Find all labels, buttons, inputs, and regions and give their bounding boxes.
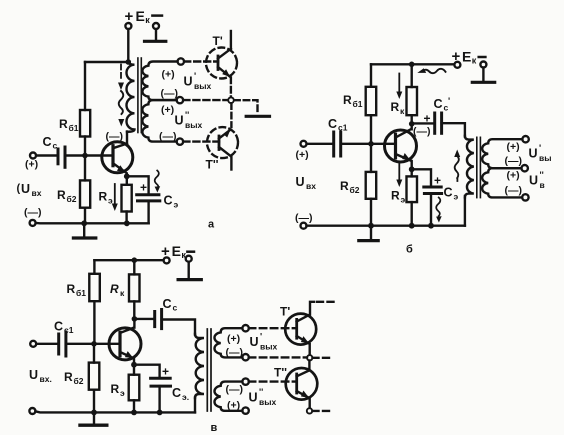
wire emitter to Ce (v) — [134, 365, 160, 379]
svg-text:U: U — [29, 368, 38, 382]
terminal input - (a) — [30, 220, 36, 226]
label (+) sec2 (b) — [507, 170, 520, 182]
wire dashed tap1 to T' (a) — [184, 60, 218, 62]
svg-text:R: R — [111, 382, 120, 396]
svg-text:э: э — [401, 195, 406, 205]
transformer core (b) — [476, 137, 478, 197]
svg-text:(—): (—) — [24, 207, 42, 219]
terminal sec mid (b) — [522, 165, 528, 171]
svg-text:б2: б2 — [350, 185, 360, 195]
transformer core (v) — [206, 329, 208, 411]
terminal input - (b) — [301, 223, 307, 229]
label Uv'' (b) — [529, 170, 545, 190]
wire dashed sec1-bottom to node1 (v) — [249, 356, 307, 358]
wire bottom rail (b) — [307, 224, 465, 226]
ground (a right) — [246, 115, 269, 118]
svg-text:C: C — [328, 117, 337, 131]
svg-text:к: к — [400, 106, 405, 116]
svg-text:R: R — [391, 189, 400, 203]
arrow down beside Re (a) — [114, 184, 116, 205]
svg-text:': ' — [260, 332, 262, 342]
resistor Re (a) — [122, 185, 132, 212]
svg-text:C: C — [43, 135, 52, 149]
svg-text:б1: б1 — [69, 123, 79, 133]
node: output common circle (a) — [228, 97, 234, 103]
terminal sec bottom (a) — [177, 138, 183, 144]
svg-text:б: б — [406, 244, 413, 256]
squiggle arrow at top rail (b) — [423, 69, 446, 73]
wire base node to Rb2 (v) — [93, 344, 95, 363]
node: T'' emitter circle (v) — [307, 408, 312, 413]
wire bottom rail (a) — [36, 222, 149, 225]
svg-text:': ' — [539, 143, 541, 153]
svg-text:R: R — [59, 117, 68, 131]
capacitor Cc1 (v) — [57, 334, 60, 354]
wire emitter to Re (a) — [126, 176, 128, 185]
svg-text:+: + — [424, 112, 431, 126]
svg-text:вых: вых — [259, 397, 276, 407]
svg-text:C: C — [164, 194, 173, 208]
svg-text:с: с — [173, 303, 178, 313]
wire Rb1 top (b) — [370, 64, 372, 87]
svg-text:U: U — [250, 335, 259, 349]
label (-) input (b) — [295, 212, 313, 224]
transistor VT (v) — [109, 328, 141, 360]
label (+) sec1 (a) — [162, 69, 175, 81]
svg-text:T': T' — [280, 305, 290, 319]
node: rail dot 3 (b) — [428, 223, 434, 229]
wire base node to Rb2 (b) — [370, 144, 372, 172]
svg-text:T'': T'' — [274, 366, 287, 380]
label Uv' (b) — [529, 143, 552, 163]
svg-text:U: U — [175, 114, 184, 128]
wire primary bottom to rail (b) — [464, 196, 466, 226]
wire Re bottom (b) — [411, 202, 413, 226]
ground (a bottom) — [83, 223, 85, 236]
svg-text:R: R — [67, 282, 76, 296]
svg-text:C: C — [434, 97, 443, 111]
label b — [406, 244, 413, 256]
svg-text:T': T' — [213, 34, 223, 48]
label Uvx (a) — [17, 182, 42, 198]
label (+) sec2 (a) — [161, 104, 174, 116]
wire Rb1 top (v) — [93, 260, 95, 274]
node: bottom junction 1 (a) — [81, 220, 87, 226]
label (-) sec1 (v) — [226, 347, 244, 359]
svg-text:E: E — [172, 243, 181, 259]
svg-text:вых: вых — [260, 342, 277, 352]
svg-text:вых: вых — [185, 120, 202, 130]
wire T'' collector to node1 (v) — [308, 361, 310, 371]
svg-text:R: R — [343, 93, 352, 107]
squiggle arrow in primary (b) — [454, 150, 460, 158]
wire dashed tap-mid to node (a) — [183, 99, 227, 101]
wire top rail (v) — [94, 259, 163, 261]
capacitor Cc (a) — [57, 149, 60, 164]
wire Rb2 bottom (v) — [93, 390, 95, 413]
svg-text:б2: б2 — [67, 194, 77, 204]
svg-text:с1: с1 — [338, 123, 348, 133]
terminal input + (b) — [301, 141, 307, 147]
node: junction dot top (a) — [126, 59, 132, 65]
svg-text:': ' — [194, 71, 196, 81]
capacitor Cc1 (b) — [332, 132, 335, 156]
resistor Rb2 (v) — [89, 363, 100, 390]
svg-text:C: C — [54, 320, 63, 334]
transistor T' (a) — [206, 48, 237, 79]
wire dashed sec1-top to T' base (v) — [249, 327, 297, 329]
node: rail dot 2 (b) — [409, 223, 415, 229]
wire top rail (b) — [371, 63, 454, 65]
wire Re bottom (v) — [133, 400, 135, 412]
terminal input bottom (v) — [29, 408, 35, 414]
svg-text:(+): (+) — [161, 104, 174, 116]
node: bottom junction 2 (a) — [124, 220, 130, 226]
transistor T'' (v) — [286, 368, 318, 400]
node: rail dot 2 (v) — [131, 410, 137, 416]
svg-text:э: э — [454, 192, 459, 202]
node: rail dot 1 (v) — [91, 410, 97, 416]
wire top horizontal to Rb1 column (a) — [85, 61, 128, 63]
label Uvx (b) — [296, 175, 317, 191]
label (-) sec2 (b) — [505, 185, 523, 197]
secondary lower half winding (a) — [142, 100, 176, 142]
transformer primary winding (v) — [195, 334, 204, 398]
wire input to Cc (a) — [36, 154, 58, 156]
svg-text:+: + — [434, 174, 441, 188]
svg-text:(+): (+) — [25, 159, 38, 171]
svg-text:(—): (—) — [226, 384, 244, 396]
resistor Rk (b) — [407, 87, 418, 115]
svg-text:R: R — [340, 179, 349, 193]
terminal sec bottom (b) — [522, 194, 528, 200]
wire collector node to Cc' (b) — [412, 122, 435, 124]
ground (a top) — [155, 29, 157, 39]
capacitor Ce (v) — [151, 377, 171, 380]
node: emitter dot (v) — [131, 362, 137, 368]
transistor VT (b) — [385, 130, 417, 162]
svg-text:R: R — [64, 370, 73, 384]
label v — [211, 422, 218, 434]
node: base junction dot (a) — [82, 153, 88, 159]
node: base junction dot (b) — [368, 141, 374, 147]
wire Rb1 bottom to base node (a) — [84, 137, 86, 156]
svg-text:C: C — [172, 386, 181, 400]
svg-text:(—): (—) — [106, 131, 124, 143]
svg-text:б1: б1 — [76, 288, 86, 298]
ground (v bottom) — [93, 412, 95, 423]
svg-text:'': '' — [185, 110, 189, 120]
node: emitter dot (b) — [409, 166, 415, 172]
wire Rb1 to base node (b) — [370, 115, 372, 144]
svg-text:вх: вх — [32, 188, 42, 198]
svg-text:(—): (—) — [226, 347, 244, 359]
wire Cc to base (a) — [65, 154, 113, 156]
wire input to Cc1 (b) — [307, 143, 334, 145]
terminal sec1 top (v) — [242, 325, 248, 331]
wire emitter node to Re (v) — [133, 365, 135, 375]
capacitor Ce (b) — [424, 186, 441, 189]
label a — [208, 219, 215, 231]
terminal -Ek (v) — [186, 256, 192, 262]
wire emitter node to Re (b) — [411, 169, 413, 176]
wire emitter to Ce (b) — [412, 169, 431, 187]
transformer primary winding (b) — [465, 136, 474, 198]
svg-text:(+): (+) — [227, 400, 240, 412]
svg-text:(+): (+) — [507, 170, 520, 182]
terminal +Ek (a) — [125, 23, 131, 29]
resistor Rb1 (a) — [80, 110, 90, 137]
terminal +Ek (b) — [454, 62, 460, 68]
node: top junction dot (b) — [409, 62, 415, 68]
node: top junction dot (v) — [132, 257, 138, 263]
svg-text:'': '' — [540, 170, 544, 180]
terminal sec1 bottom (v) — [242, 354, 248, 360]
transformer secondary winding (a) — [142, 62, 177, 101]
svg-text:вх: вх — [306, 181, 316, 191]
wire collector node to Cc (v) — [134, 318, 154, 320]
wire dashed tap-bottom to T'' (a) — [183, 140, 219, 142]
svg-text:(+): (+) — [227, 333, 240, 345]
svg-text:U: U — [529, 174, 538, 188]
wire input to Cc1 (v) — [36, 343, 59, 345]
svg-text:(+): (+) — [162, 69, 175, 81]
wire Rb2 bottom (a) — [84, 208, 86, 224]
node: collector junction dot (v) — [132, 316, 138, 322]
arrow down beside Rk (b) — [398, 74, 400, 94]
label (-) sec2 (a) — [159, 131, 177, 143]
wire dashed node right + down to ground (a) — [234, 100, 257, 112]
svg-text:(—): (—) — [505, 155, 523, 167]
svg-text:с1: с1 — [64, 325, 74, 335]
node: collector junction dot (b) — [409, 121, 415, 127]
svg-text:': ' — [448, 96, 450, 106]
svg-text:вх.: вх. — [40, 374, 52, 384]
node: emitter dot (a) — [124, 173, 130, 179]
svg-text:а: а — [208, 219, 215, 231]
ground (v top) — [187, 262, 189, 277]
svg-text:U: U — [296, 175, 305, 189]
terminal sec mid (a) — [177, 97, 183, 103]
svg-text:(: ( — [17, 183, 21, 195]
secondary lower half winding (b) — [482, 168, 522, 197]
svg-text:(+): (+) — [296, 149, 309, 161]
transformer secondary winding (b) — [482, 139, 522, 168]
supply label +Ek- (v) — [161, 243, 186, 260]
label (-) above transistor (a) — [106, 131, 124, 143]
terminal -Ek (a) — [153, 23, 159, 29]
label Uvyx' (a) — [184, 71, 212, 91]
dashed squiggle arrow in primary (a) — [120, 65, 122, 79]
node: rail dot 1 (b) — [368, 223, 374, 229]
wire Rb1 top (a) — [84, 62, 86, 110]
capacitor Cc (v) — [153, 312, 156, 327]
svg-text:(—): (—) — [413, 126, 431, 138]
transistor T' (v) — [285, 314, 316, 345]
wire Rb2 bottom (b) — [370, 199, 372, 226]
svg-text:к: к — [120, 288, 125, 298]
wire Cc1 to base (b) — [341, 143, 395, 145]
svg-text:вы: вы — [539, 153, 551, 163]
ground (b top) — [482, 68, 484, 81]
transistor VT (a) — [102, 142, 133, 173]
terminal -Ek (b) — [480, 62, 486, 68]
svg-text:к: к — [472, 56, 477, 66]
svg-text:R: R — [391, 100, 400, 114]
transformer core (a) — [137, 58, 139, 133]
label Uvyx'' (a) — [175, 110, 203, 130]
label (-) sec1 (a) — [161, 88, 179, 100]
svg-text:C: C — [163, 297, 172, 311]
label (-) input (a) — [24, 207, 42, 219]
resistor Rb1 (b) — [366, 87, 377, 115]
label Uvyx' (v) — [250, 332, 278, 352]
svg-text:(—): (—) — [505, 185, 523, 197]
wire Rk top (b) — [411, 64, 413, 87]
supply label +Ek- (b) — [452, 48, 477, 66]
wire Ek down to node (a) — [127, 29, 129, 62]
svg-text:э: э — [174, 200, 179, 210]
wire bottom rail (v) — [35, 411, 195, 412]
svg-text:б1: б1 — [353, 99, 363, 109]
resistor Rb2 (a) — [80, 180, 90, 207]
label (-) sec1 (b) — [505, 155, 523, 167]
wire Rk bottom to collector node (v) — [133, 301, 135, 319]
wire dashed sec2-top to T'' base (v) — [249, 380, 297, 382]
wire Cc1 to base (v) — [66, 343, 120, 345]
terminal +Ek (v) — [164, 257, 170, 263]
wire emitter to Ce (a) — [127, 176, 149, 194]
svg-text:э.: э. — [182, 392, 189, 402]
wire dashed node1 right (v) — [313, 357, 332, 359]
svg-text:(+): (+) — [507, 141, 520, 153]
svg-text:в: в — [211, 422, 218, 434]
wire base node to Rb2 (a) — [84, 156, 86, 181]
wire Rk bottom to collector node (b) — [411, 115, 413, 124]
label Uvx (v) — [29, 368, 52, 384]
svg-text:T'': T'' — [206, 158, 219, 172]
svg-text:э: э — [120, 388, 125, 398]
svg-text:с: с — [53, 141, 58, 151]
supply label +Ek- (a) — [125, 8, 151, 25]
terminal sec top (b) — [522, 136, 528, 142]
node: T' emitter circle (v) — [307, 355, 312, 360]
svg-text:E: E — [136, 8, 145, 24]
svg-text:U: U — [21, 182, 30, 196]
wire Cc to transformer (v) — [162, 320, 195, 335]
wire Rk top (v) — [133, 260, 135, 274]
svg-text:вых: вых — [194, 81, 211, 91]
svg-text:(—): (—) — [159, 131, 177, 143]
node: rail dot 3 (v) — [157, 410, 163, 416]
wire Re bottom (a) — [125, 212, 127, 224]
svg-text:в: в — [540, 180, 545, 190]
label (-) sec2 (v) — [226, 384, 244, 396]
svg-text:U: U — [184, 75, 193, 89]
svg-text:(—): (—) — [161, 88, 179, 100]
svg-text:+: + — [162, 365, 169, 379]
svg-text:E: E — [462, 49, 471, 65]
svg-text:'': '' — [259, 387, 263, 397]
transistor T'' (a) — [207, 127, 238, 158]
transformer secondary 1 winding (v) — [214, 328, 242, 357]
label (+) sec1 (b) — [507, 141, 520, 153]
svg-text:к: к — [145, 15, 150, 25]
terminal input top (v) — [30, 341, 36, 347]
resistor Re (b) — [407, 176, 418, 202]
resistor Rk (v) — [129, 274, 140, 301]
label (+) sec2 (v) — [227, 400, 240, 412]
resistor Rb1 (v) — [89, 274, 100, 301]
terminal sec top (a) — [178, 58, 184, 64]
node: base junction dot (v) — [91, 341, 97, 347]
squiggle arrow at Ce (a) — [155, 171, 159, 190]
wire primary bottom to rail (v) — [194, 398, 196, 413]
svg-text:C: C — [444, 186, 453, 200]
svg-text:R: R — [99, 190, 108, 204]
terminal sec2 top (v) — [242, 378, 248, 384]
resistor Rb2 (b) — [366, 172, 377, 199]
terminal input + (a) — [30, 153, 36, 159]
capacitor Ce (a) — [137, 193, 159, 196]
svg-text:U: U — [249, 391, 258, 405]
squiggle arrow at Ce (b) — [436, 198, 440, 217]
wire dashed node2 right (v) — [313, 410, 332, 412]
transformer secondary 2 winding (v) — [214, 382, 242, 411]
svg-text:+: + — [140, 181, 147, 195]
svg-text:R: R — [110, 282, 119, 296]
svg-text:U: U — [529, 147, 538, 161]
wire Rb1 to base node (v) — [93, 301, 95, 344]
label (+) sec1 (v) — [227, 333, 240, 345]
capacitor Cc' (b) — [433, 113, 436, 133]
transformer primary winding (a) — [127, 62, 135, 132]
ground (b bottom) — [370, 226, 372, 239]
terminal sec2 bottom (v) — [242, 407, 248, 413]
wire Cc' to transformer (b) — [442, 123, 465, 136]
label Uvyx'' (v) — [249, 387, 277, 407]
arrow down beside Re (b) — [398, 163, 400, 182]
svg-text:б2: б2 — [74, 376, 84, 386]
resistor Re (v) — [129, 375, 140, 401]
svg-text:R: R — [57, 188, 66, 202]
wire dashed node to T'' collector (a) — [230, 103, 232, 127]
